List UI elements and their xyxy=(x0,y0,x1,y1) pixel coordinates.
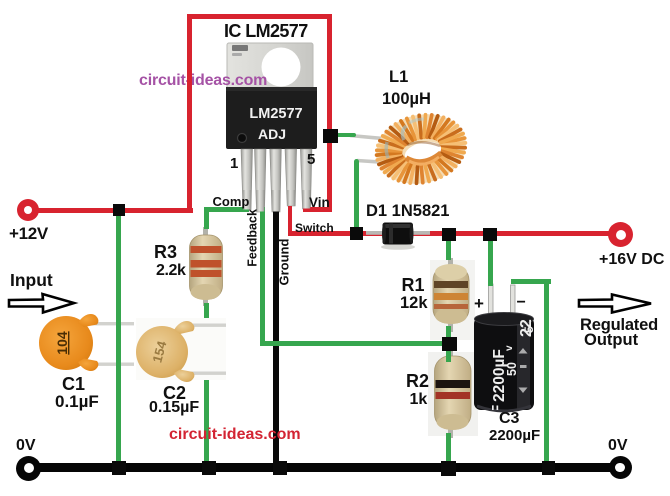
label R1 xyxy=(402,276,425,294)
diode D1 1N5821 xyxy=(362,216,434,256)
node: feedback R1/R2 junction xyxy=(442,337,457,351)
label Switch xyxy=(295,222,334,234)
capacitor C1 0.1uF ceramic disc xyxy=(36,310,136,374)
svg-text:104: 104 xyxy=(54,331,70,355)
svg-text:50: 50 xyxy=(505,362,519,376)
label L1 xyxy=(389,69,408,86)
node: rail junction R2 xyxy=(441,461,456,476)
label C2 xyxy=(163,384,186,402)
node: switch/L1 junction xyxy=(350,227,363,240)
output arrow xyxy=(575,291,655,317)
wire: green R3 bottom to 0V rail xyxy=(204,303,210,464)
wire: green Feedback horizontal to R1/R2 node xyxy=(260,341,449,346)
label + C3 xyxy=(474,295,484,312)
label 0V left xyxy=(16,438,36,454)
node: Vin/L1 junction xyxy=(323,129,338,143)
resistor R3 2.2k xyxy=(185,222,227,310)
label 1k xyxy=(410,392,428,408)
watermark circuit-ideas.com xyxy=(139,73,267,89)
label Vin xyxy=(309,196,330,210)
wire: green Comp down to R3 xyxy=(204,207,210,229)
terminal 0V left xyxy=(16,456,41,481)
label D1 1N5821 xyxy=(366,203,449,220)
wire: green C3 minus horizontal xyxy=(511,279,551,284)
label pin 1 xyxy=(230,156,238,171)
resistor R1 12k xyxy=(427,252,475,348)
label 0.15uF xyxy=(149,400,199,416)
label 0V right xyxy=(608,438,628,454)
svg-text:ADJ: ADJ xyxy=(258,126,286,142)
node: C3 plus junction xyxy=(483,228,497,241)
wire: top horizontal red xyxy=(187,14,332,19)
label IC LM2577 xyxy=(224,22,308,40)
label pin 5 xyxy=(307,152,315,167)
node: rail junction C1 xyxy=(112,461,126,475)
wire: green L1 bottom lead down to switch node xyxy=(354,159,360,236)
label C1 xyxy=(62,375,85,393)
label R2 xyxy=(406,372,429,390)
label R3 xyxy=(154,243,177,261)
wire: switch rail red to +16V xyxy=(288,231,610,236)
label 0.1uF xyxy=(55,393,99,410)
node: D1 cathode / R1 junction xyxy=(442,228,456,241)
label Output xyxy=(584,332,638,349)
wire: right vertical red drop to Vin xyxy=(327,14,333,210)
label 12k xyxy=(400,295,428,312)
wire: red into pin 5 Vin xyxy=(303,207,332,212)
IC U1 LM2577 TO-220 package photo xyxy=(220,38,320,218)
wire: green Comp pin horizontal xyxy=(204,207,249,212)
terminal +12V xyxy=(17,199,39,221)
wire: green node to R2 top xyxy=(446,348,451,362)
resistor R2 1k xyxy=(428,348,478,440)
node: rail junction C2 xyxy=(202,461,216,475)
inductor L1 toroid xyxy=(340,108,470,190)
svg-text:v: v xyxy=(504,345,515,351)
wire: +12V horizontal red xyxy=(28,208,193,213)
svg-text:5: 5 xyxy=(522,326,536,333)
watermark circuit-ideas.com red xyxy=(169,427,301,443)
wire: green R1 bottom to node xyxy=(446,326,451,344)
label - C3 xyxy=(517,295,526,311)
terminal 0V right xyxy=(609,456,632,479)
wire: green R2 bottom to 0V rail xyxy=(446,433,451,464)
svg-text:LM2577: LM2577 xyxy=(249,106,302,122)
wire: red from pin 4 Switch down xyxy=(288,206,293,236)
wire: green Feedback pin vertical xyxy=(260,207,266,347)
capacitor C3 2200uF electrolytic xyxy=(470,276,540,416)
label +12V xyxy=(9,225,48,242)
wire: green output node down to R1 xyxy=(446,240,451,260)
wire: 0V rail xyxy=(29,463,620,472)
label 100uH xyxy=(382,91,431,108)
wire: black Ground pin down to 0V rail xyxy=(273,205,279,465)
label Input xyxy=(10,272,53,290)
label 2.2k xyxy=(156,263,186,279)
label +16V DC xyxy=(599,252,664,268)
wire: green +12V node down to 0V rail xyxy=(116,211,122,464)
wire: left vertical red riser xyxy=(187,14,192,212)
node: rail junction C3 xyxy=(542,461,555,475)
wire: green junction to L1 top lead xyxy=(332,133,356,138)
wire: green C3 minus down to 0V rail xyxy=(544,279,550,464)
input arrow xyxy=(5,290,81,318)
capacitor C2 0.15uF ceramic disc (over wires) xyxy=(136,315,228,383)
node: rail junction ground pin xyxy=(273,461,287,475)
label Ground (rotated) xyxy=(278,244,291,286)
wire: green output node down to C3 plus lead xyxy=(488,240,493,286)
terminal +16V DC xyxy=(608,222,633,247)
wire: green feedback over ground crossing xyxy=(266,341,286,346)
label Comp xyxy=(213,195,250,208)
label C3 xyxy=(499,411,519,427)
label Regulated xyxy=(580,317,658,334)
node: +12V junction xyxy=(113,204,125,216)
label 2200uF xyxy=(489,428,540,443)
label Feedback (rotated) xyxy=(246,213,259,266)
IC U1 LM2577 leg tips over wires xyxy=(240,190,315,215)
